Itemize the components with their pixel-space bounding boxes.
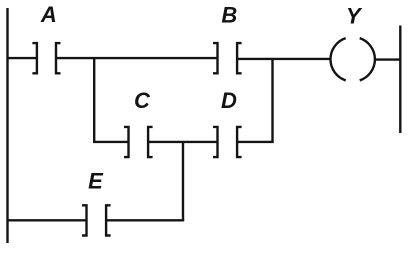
wire: bottom rung from left rail to contact E (8, 219, 87, 221)
svg-text:D: D (221, 88, 237, 113)
wire: parallel branch rung to contact C (93, 141, 129, 143)
wire: contact A to contact B (56, 57, 218, 59)
wire: vertical branch up from parallel branch to top rung (271, 58, 273, 142)
right power rail (399, 26, 401, 134)
wire: left rail to contact A (8, 57, 37, 59)
coil Y (330, 38, 374, 80)
wire: contact D to right vertical branch (237, 141, 274, 143)
wire: contact C to contact D (148, 141, 217, 143)
contact B (213, 43, 242, 73)
svg-text:Y: Y (346, 4, 363, 29)
wire: contact B to coil Y (237, 58, 330, 60)
svg-text:B: B (221, 3, 237, 28)
contact A (32, 43, 60, 73)
wire: contact E to center vertical (106, 219, 184, 221)
svg-text:E: E (88, 169, 104, 194)
contact D (213, 127, 242, 157)
wire: vertical from parallel branch down to bottom rung (182, 142, 184, 220)
contact C (124, 127, 153, 157)
svg-text:C: C (134, 88, 151, 113)
wire: vertical branch down from top rung to parallel branch (93, 58, 95, 142)
wire: coil Y to right rail (375, 58, 400, 60)
left power rail (6, 8, 8, 243)
svg-text:A: A (40, 2, 57, 27)
contact E (82, 205, 111, 235)
